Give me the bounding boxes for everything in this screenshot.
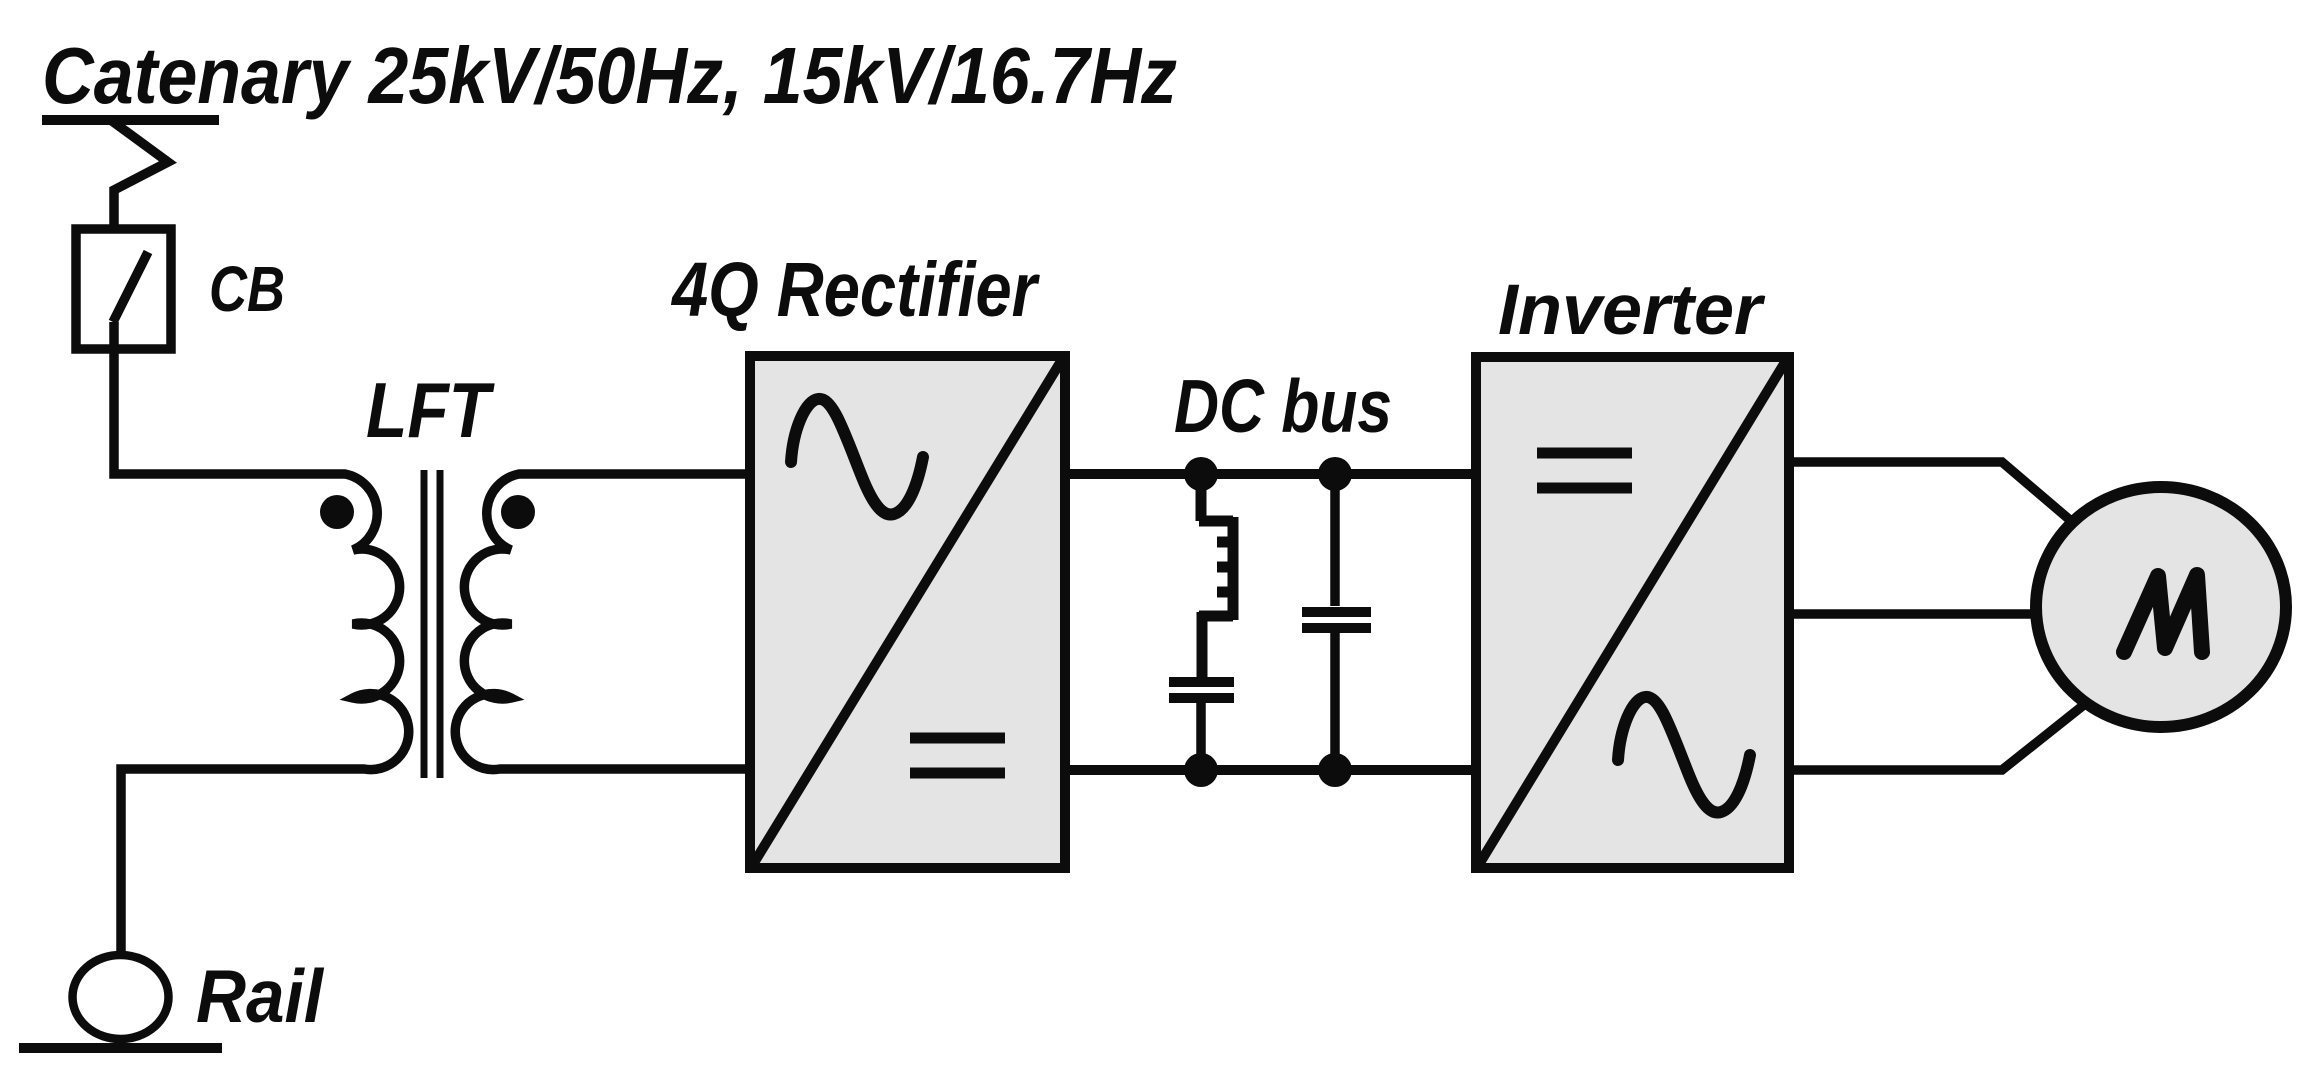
svg-text:DC bus: DC bus (1174, 364, 1392, 448)
svg-text:4Q Rectifier: 4Q Rectifier (670, 247, 1040, 333)
svg-text:CB: CB (209, 253, 285, 325)
svg-text:Rail: Rail (196, 954, 325, 1038)
svg-text:Catenary 25kV/50Hz, 15kV/16.7H: Catenary 25kV/50Hz, 15kV/16.7Hz (42, 31, 1177, 120)
svg-text:LFT: LFT (366, 366, 496, 454)
svg-text:Inverter: Inverter (1498, 271, 1765, 350)
